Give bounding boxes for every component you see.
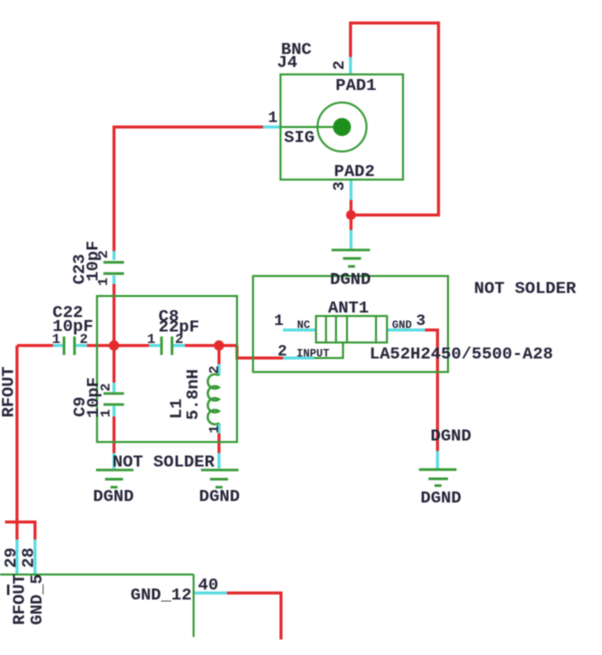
IC U1 box (bottom left, cropped) xyxy=(0,575,194,638)
capacitor C23 plates xyxy=(103,262,124,273)
pin stub C23 pin2 xyxy=(113,251,116,260)
wire C23 bottom to main node xyxy=(113,284,116,346)
svg-text:ANT1: ANT1 xyxy=(328,300,369,319)
pin stub L1 pin1 xyxy=(218,423,221,434)
pin stub IC pin28 xyxy=(34,540,37,575)
overline mark on RFOUT pin name xyxy=(7,585,9,596)
svg-text:2: 2 xyxy=(331,60,349,70)
svg-text:GND_12: GND_12 xyxy=(131,587,192,606)
capacitor C9 plates xyxy=(104,394,125,405)
ground DGND under C9 xyxy=(96,470,134,487)
svg-text:1: 1 xyxy=(147,332,155,348)
pin stub ANT1 INPUT xyxy=(283,357,314,360)
inductor L1 coil xyxy=(208,374,219,424)
svg-text:2: 2 xyxy=(99,383,115,391)
connector J4 BNC body xyxy=(281,74,404,179)
wire ANT1 GND pin to DGND xyxy=(425,330,438,451)
wire C9 pin1 to DGND xyxy=(113,417,116,454)
svg-text:RFOUT: RFOUT xyxy=(11,574,30,625)
svg-text:SIG: SIG xyxy=(284,129,315,148)
svg-text:28: 28 xyxy=(20,548,39,568)
svg-text:2: 2 xyxy=(96,250,112,258)
svg-text:LA52H2450/5500-A28: LA52H2450/5500-A28 xyxy=(370,346,554,365)
wire node A down to C9 xyxy=(113,346,116,383)
svg-text:PAD2: PAD2 xyxy=(334,163,375,182)
pin stub C22 pin2 xyxy=(76,344,87,347)
svg-text:10pF: 10pF xyxy=(85,241,104,282)
svg-text:2: 2 xyxy=(80,332,88,348)
wire net SIG: BNC pin2 loop top xyxy=(351,23,439,215)
wire node B to ANT1 INPUT xyxy=(237,346,283,359)
pin stub BNC pin3 xyxy=(350,180,353,200)
ground DGND right xyxy=(419,470,457,486)
pin stub BNC pin1 xyxy=(263,126,281,129)
svg-text:1: 1 xyxy=(52,332,60,348)
pin stub C8 pin1 xyxy=(149,344,160,347)
capacitor C22 plates xyxy=(64,337,75,356)
svg-text:29: 29 xyxy=(3,548,22,568)
pin stub DGND right xyxy=(436,451,439,469)
box NOT SOLDER around C9/C8/L1 xyxy=(97,296,237,442)
svg-text:2: 2 xyxy=(207,366,223,374)
svg-text:1: 1 xyxy=(268,109,278,127)
pin stub L1 pin2 xyxy=(218,364,221,376)
svg-text:3: 3 xyxy=(416,312,426,330)
capacitor C8 plates xyxy=(162,337,173,356)
svg-text:1: 1 xyxy=(99,409,115,417)
ground DGND under BNC xyxy=(332,250,371,266)
svg-text:2: 2 xyxy=(278,343,288,361)
pin stub IC pin40 xyxy=(194,592,227,595)
pin stub ANT1 GND xyxy=(387,329,425,332)
svg-text:DGND: DGND xyxy=(421,490,462,509)
pin stub C9 pin2 xyxy=(113,383,116,393)
pin stub BNC pin2 xyxy=(349,57,352,74)
svg-text:DGND: DGND xyxy=(330,271,371,290)
pin stub DGND under C9 xyxy=(113,453,116,469)
box NOT SOLDER around ANT1 xyxy=(253,276,448,372)
svg-text:DGND: DGND xyxy=(431,428,472,447)
pin stub IC pin29 xyxy=(16,540,19,575)
ground DGND under L1 xyxy=(201,470,239,487)
svg-text:GND: GND xyxy=(392,320,412,332)
wire RFOUT branch to pin 28 xyxy=(5,522,35,540)
wire L1 pin1 to DGND xyxy=(218,434,221,454)
connector J4 BNC center pin dot xyxy=(333,118,351,136)
pin stub C22 pin1 xyxy=(53,344,63,347)
svg-text:DGND: DGND xyxy=(93,488,134,507)
svg-text:5.8nH: 5.8nH xyxy=(185,369,204,420)
pin stub DGND under BNC xyxy=(350,230,353,249)
svg-text:J4: J4 xyxy=(277,54,297,73)
pin stub DGND under L1 xyxy=(218,453,221,469)
wire C22 pin2 to node A xyxy=(87,344,149,347)
svg-text:1: 1 xyxy=(274,312,284,330)
svg-text:3: 3 xyxy=(331,181,349,191)
pin stub ANT1 NC xyxy=(283,329,316,332)
pin stub C8 pin2 xyxy=(174,344,186,347)
node B junction C8/L1 xyxy=(214,340,224,350)
wire C8 pin2 to node B xyxy=(185,344,237,347)
svg-text:RFOUT: RFOUT xyxy=(0,366,19,417)
wire RFOUT horizontal to C22 xyxy=(17,344,53,347)
wire IC pin40 GND_12 xyxy=(227,593,281,640)
svg-text:NOT SOLDER: NOT SOLDER xyxy=(113,454,216,473)
svg-text:INPUT: INPUT xyxy=(297,349,330,361)
svg-text:GND_5: GND_5 xyxy=(29,574,48,625)
wire RFOUT vertical down to IC xyxy=(16,346,19,540)
wire BNC pin3 to junction and to ground xyxy=(350,200,353,230)
svg-text:1: 1 xyxy=(96,278,112,286)
svg-text:2: 2 xyxy=(175,332,183,348)
node A junction C22/C23/C9 xyxy=(109,340,119,350)
wire BNC SIG pin1 to C23 xyxy=(114,127,263,251)
antenna module ANT1 symbol xyxy=(314,316,387,358)
svg-text:40: 40 xyxy=(198,577,218,596)
node junction SIG/PAD2 xyxy=(346,210,356,220)
svg-text:NOT SOLDER: NOT SOLDER xyxy=(474,280,577,299)
svg-text:PAD1: PAD1 xyxy=(336,77,377,96)
pin stub C9 pin1 xyxy=(113,406,116,417)
wire node B down to L1 xyxy=(218,346,221,365)
svg-text:1: 1 xyxy=(207,425,223,433)
pin stub C23 pin1 xyxy=(113,276,116,285)
svg-text:DGND: DGND xyxy=(199,488,240,507)
svg-text:NC: NC xyxy=(297,320,311,332)
